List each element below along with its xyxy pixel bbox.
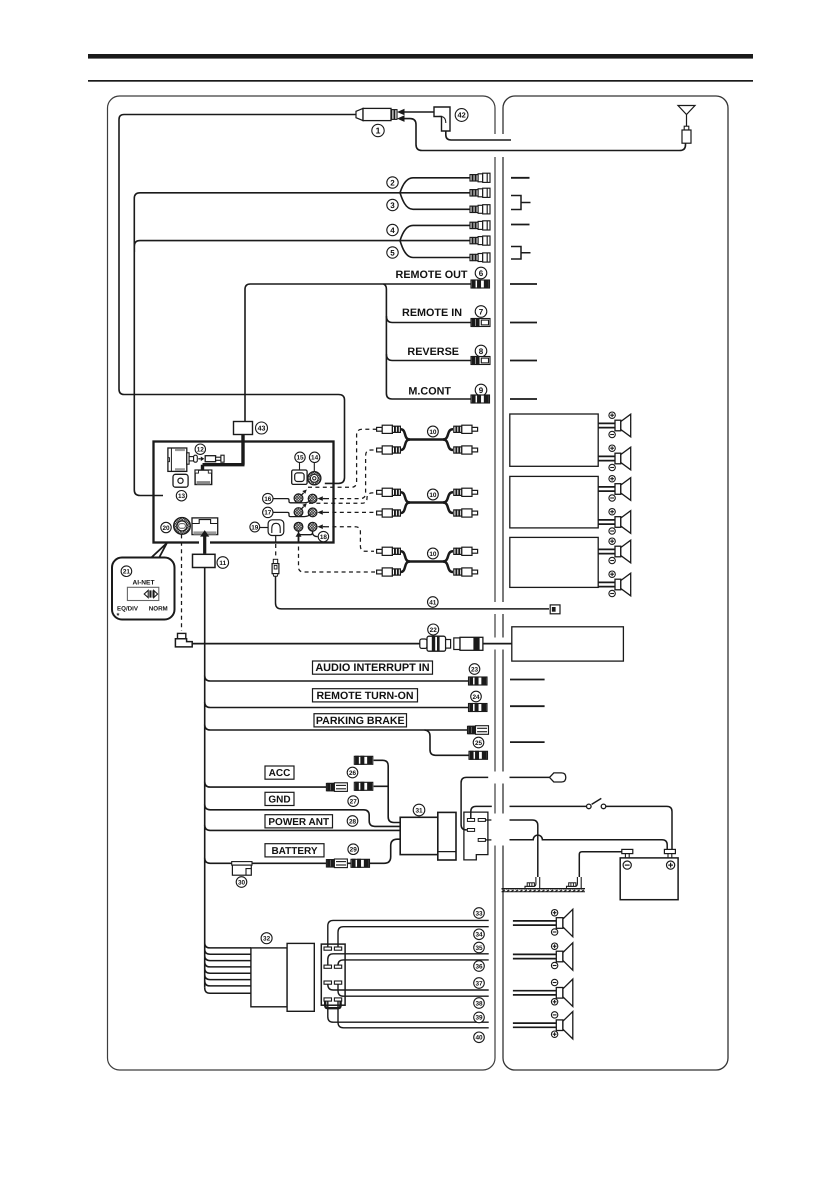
svg-text:10: 10 (429, 551, 437, 558)
svg-text:M.CONT: M.CONT (408, 385, 451, 397)
svg-text:14: 14 (311, 455, 319, 462)
svg-text:38: 38 (475, 1000, 483, 1007)
svg-text:9: 9 (479, 386, 484, 395)
svg-text:17: 17 (264, 510, 272, 517)
svg-text:40: 40 (475, 1035, 483, 1042)
svg-text:10: 10 (429, 492, 437, 499)
svg-text:32: 32 (263, 936, 271, 943)
svg-text:2: 2 (390, 178, 395, 187)
svg-text:AUDIO INTERRUPT IN: AUDIO INTERRUPT IN (315, 662, 429, 674)
svg-text:24: 24 (472, 694, 480, 701)
svg-text:23: 23 (471, 666, 479, 673)
svg-text:19: 19 (251, 524, 259, 531)
svg-text:33: 33 (475, 910, 483, 917)
svg-text:42: 42 (457, 111, 465, 120)
svg-text:39: 39 (475, 1015, 483, 1022)
svg-text:REMOTE OUT: REMOTE OUT (396, 269, 468, 281)
svg-text:13: 13 (178, 493, 186, 500)
svg-text:12: 12 (197, 447, 205, 454)
svg-text:35: 35 (475, 945, 483, 952)
svg-text:20: 20 (162, 525, 170, 532)
svg-text:PARKING BRAKE: PARKING BRAKE (316, 715, 405, 727)
svg-text:1: 1 (376, 126, 381, 136)
svg-text:GND: GND (268, 795, 290, 806)
svg-text:REVERSE: REVERSE (407, 346, 459, 358)
svg-text:25: 25 (475, 740, 483, 747)
svg-text:6: 6 (479, 269, 484, 278)
svg-text:*: * (117, 611, 120, 620)
svg-text:EQ/DIV: EQ/DIV (117, 606, 139, 613)
svg-text:POWER ANT: POWER ANT (268, 817, 329, 828)
svg-text:NORM: NORM (149, 606, 168, 613)
svg-text:28: 28 (349, 818, 357, 825)
svg-text:3: 3 (390, 201, 395, 210)
svg-text:27: 27 (350, 798, 358, 805)
svg-text:21: 21 (123, 569, 131, 576)
svg-text:43: 43 (258, 426, 266, 433)
svg-text:37: 37 (475, 980, 483, 987)
svg-text:REMOTE TURN-ON: REMOTE TURN-ON (316, 690, 413, 702)
svg-text:BATTERY: BATTERY (271, 846, 317, 857)
svg-text:30: 30 (238, 879, 246, 886)
svg-text:5: 5 (390, 248, 395, 257)
svg-text:4: 4 (390, 226, 395, 235)
svg-text:REMOTE IN: REMOTE IN (402, 307, 462, 319)
svg-text:36: 36 (475, 963, 483, 970)
svg-text:22: 22 (430, 627, 438, 634)
svg-text:ACC: ACC (269, 768, 291, 779)
svg-text:8: 8 (479, 347, 484, 356)
svg-text:7: 7 (479, 307, 484, 316)
svg-text:34: 34 (475, 932, 483, 939)
svg-text:11: 11 (219, 560, 226, 567)
svg-text:18: 18 (320, 534, 328, 541)
svg-text:26: 26 (349, 770, 357, 777)
svg-text:10: 10 (429, 429, 437, 436)
svg-text:15: 15 (296, 455, 304, 462)
svg-text:AI-NET: AI-NET (133, 580, 155, 587)
svg-text:29: 29 (350, 847, 358, 854)
svg-text:16: 16 (264, 496, 272, 503)
svg-text:41: 41 (429, 599, 437, 606)
svg-text:31: 31 (415, 807, 423, 814)
